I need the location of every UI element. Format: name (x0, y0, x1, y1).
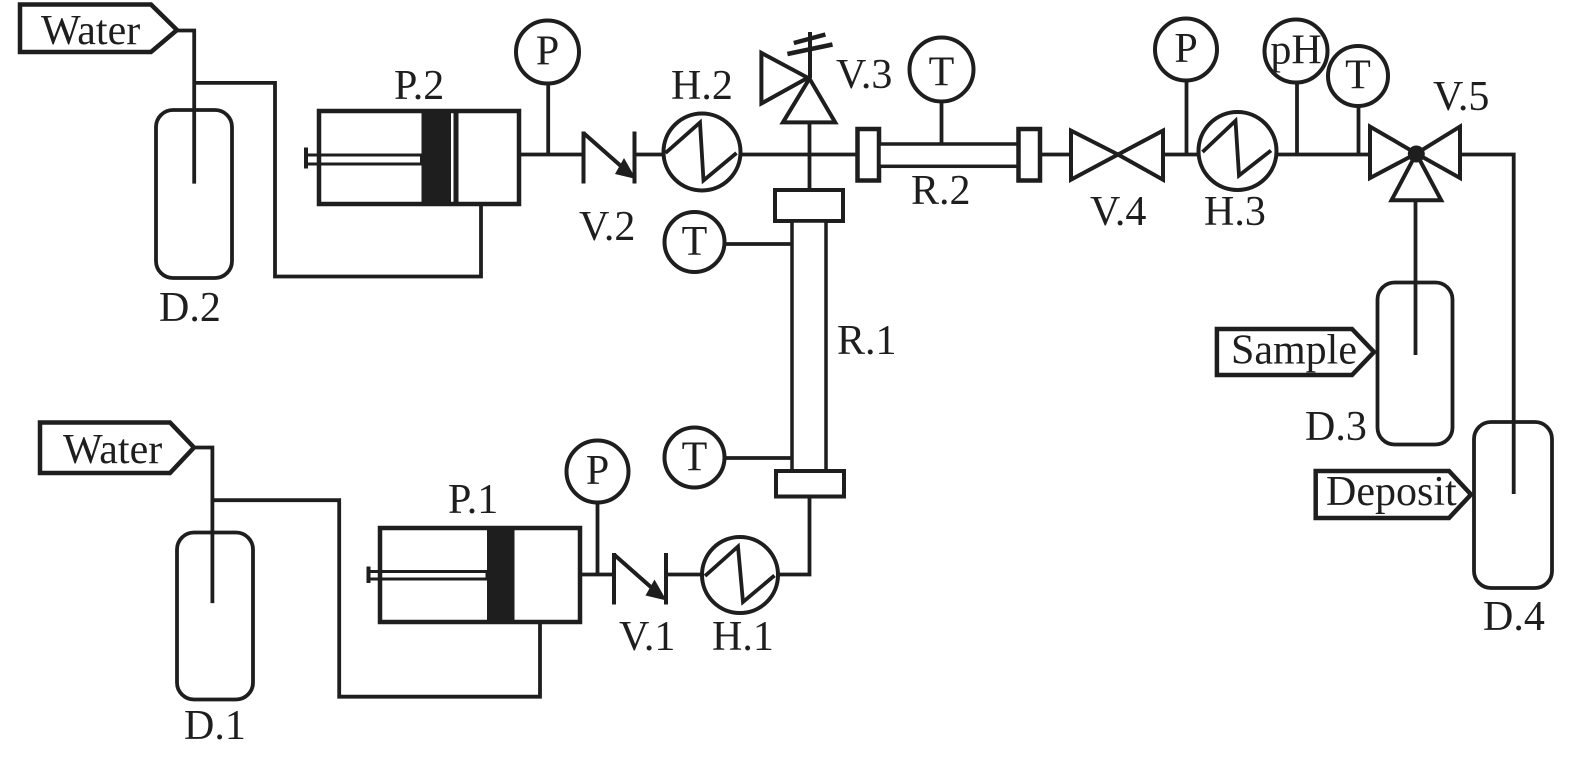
heat exchanger H.2 (664, 114, 741, 191)
wire: V.1 to H.1 (666, 573, 703, 577)
svg-text:T: T (1345, 53, 1371, 99)
svg-text:P: P (536, 29, 559, 75)
wire: P.1 outlet to V.1 (580, 573, 614, 577)
heat exchanger H.1 (702, 537, 778, 613)
svg-text:P: P (1174, 26, 1197, 72)
reactor R.2 left coupling (858, 129, 880, 181)
tag Sample (1217, 329, 1374, 375)
reactor R.1 top flange (775, 190, 843, 221)
vessel D.1 (177, 533, 253, 700)
tag Deposit (1316, 471, 1471, 518)
pump P.2 piston rod (306, 155, 422, 164)
svg-text:D.2: D.2 (159, 285, 221, 331)
svg-text:H.3: H.3 (1204, 189, 1266, 235)
svg-text:Deposit: Deposit (1326, 469, 1457, 515)
check valve V.2 left bar (582, 132, 586, 184)
svg-text:pH: pH (1270, 28, 1321, 74)
vessel D.4 (1474, 422, 1552, 588)
gauge T at R.1 bottom (665, 428, 725, 488)
reactor R.2 tube (879, 144, 1019, 166)
wire: D.2 branch to P.2 bottom inlet (194, 83, 481, 277)
valve V.3 bottom triangle (783, 79, 835, 123)
vessel D.2 (156, 110, 232, 278)
pump P.1 piston rod (369, 572, 488, 580)
wire: V.4 to H.3 (1163, 153, 1200, 157)
svg-text:H.2: H.2 (671, 63, 733, 109)
svg-text:Water: Water (63, 427, 162, 473)
pump P.2 cylinder (319, 111, 519, 204)
wire: R.2 right coupling to V.4 (1040, 153, 1072, 157)
gauge T right of pH (1328, 46, 1388, 106)
gauge P above P.1 (567, 441, 629, 503)
wire: stem of P gauge above P.2 (546, 83, 550, 155)
wire: V.5 right outlet to D.4 dip tube (1460, 155, 1514, 495)
wire: H.2 to R.2 left coupling (740, 153, 858, 157)
check valve V.2 right bar (633, 132, 637, 184)
heat exchanger H.3 (1199, 112, 1277, 190)
reactor R.2 right coupling (1019, 129, 1041, 181)
pump P.2 piston (422, 111, 452, 204)
svg-text:V.1: V.1 (619, 614, 675, 660)
check valve V.2 swing arm with arrow (584, 133, 623, 167)
pump P.1 rod end cap (367, 567, 371, 584)
valve V.5 bottom triangle (1392, 154, 1442, 201)
wire: stem of pH gauge (1295, 82, 1299, 155)
check valve V.1 left bar (612, 553, 616, 605)
pump P.2 rod end cap (304, 148, 308, 169)
wire: R.1 bottom outlet to H.1 (779, 496, 810, 575)
svg-text:Water: Water (41, 8, 140, 54)
vessel D.3 (1378, 283, 1453, 445)
wire: stem of P gauge above P.1 (596, 502, 600, 575)
tag Water bottom (40, 423, 194, 474)
gauge T above R.2 (910, 38, 974, 102)
wire: V.5 bottom outlet to D.3 dip tube (1414, 200, 1418, 355)
pump P.2 piston plate (454, 111, 459, 204)
valve V.3 stem (808, 32, 812, 78)
valve V.4 left triangle (1071, 131, 1118, 180)
svg-text:P.2: P.2 (394, 63, 444, 109)
pump P.1 cylinder (380, 528, 580, 622)
wire: stem of P gauge above V.4 (1185, 80, 1189, 155)
valve V.3 handle upper bar (794, 35, 826, 44)
wire: V.3 drop through main pipe to R.1 top flange (808, 122, 812, 191)
valve V.3 left triangle (761, 53, 807, 104)
check valve V.1 right bar (664, 553, 668, 605)
wire: P.2 outlet to V.2 (519, 153, 584, 157)
svg-text:V.4: V.4 (1090, 189, 1146, 235)
svg-text:Sample: Sample (1231, 328, 1357, 374)
svg-text:T: T (682, 219, 708, 265)
svg-text:P.1: P.1 (448, 477, 498, 523)
wire: V.2 to H.2 (635, 153, 666, 157)
wire: stem of T gauge right of pH (1357, 106, 1361, 155)
svg-text:T: T (682, 435, 708, 481)
svg-text:V.2: V.2 (579, 204, 635, 250)
svg-text:T: T (929, 50, 955, 96)
reactor R.1 bottom flange (776, 471, 844, 497)
valve V.5 right triangle (1416, 127, 1460, 178)
valve V.5 left triangle (1370, 127, 1416, 178)
reactor R.1 tube (792, 221, 826, 471)
wire: D.1 branch to P.1 bottom inlet (212, 500, 540, 697)
wire: link of T gauge to R.1 bottom (725, 456, 793, 460)
gauge P above P.2 (516, 21, 579, 84)
wire: H.3 to V.5 (1276, 153, 1370, 157)
gauge T at R.1 top (665, 212, 725, 272)
valve V.3 handle lower bar (787, 45, 832, 55)
wire: link of T gauge to R.1 top (725, 242, 793, 246)
valve V.5 center dot (1408, 146, 1425, 163)
svg-text:D.4: D.4 (1483, 594, 1545, 640)
pump P.1 piston (487, 528, 515, 622)
svg-text:D.3: D.3 (1305, 404, 1367, 450)
wire: stem of T gauge above R.2 (940, 101, 944, 144)
gauge pH (1265, 20, 1328, 83)
gauge P above V.4 (1155, 19, 1217, 81)
svg-text:V.3: V.3 (836, 52, 892, 98)
svg-text:H.1: H.1 (712, 614, 774, 660)
svg-text:R.1: R.1 (837, 318, 897, 364)
svg-text:P: P (586, 448, 609, 494)
tag Water top (20, 5, 177, 53)
svg-text:D.1: D.1 (184, 703, 246, 749)
wire: Water tag to D.1 dip tube (193, 448, 212, 604)
valve V.4 right triangle (1118, 131, 1163, 180)
svg-text:R.2: R.2 (911, 168, 971, 214)
check valve V.1 swing arm with arrow (614, 555, 653, 589)
svg-text:V.5: V.5 (1433, 74, 1489, 120)
wire: Water tag to D.2 dip tube (176, 31, 194, 184)
